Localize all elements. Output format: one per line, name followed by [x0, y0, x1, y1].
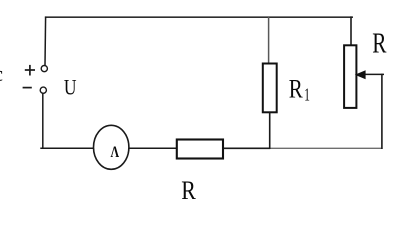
wire: left vertical from top bus to + terminal	[44, 17, 47, 66]
resistor R1 (middle vertical rectangle)	[263, 64, 277, 113]
label: plus sign of source	[25, 65, 35, 76]
wire: top horizontal bus	[45, 16, 353, 18]
svg-text:R: R	[372, 29, 386, 60]
wire: vertical drop from top bus to R1 (grey)	[268, 17, 270, 64]
wiper arrowhead pointing left into rheostat	[355, 70, 366, 79]
svg-text:1: 1	[304, 84, 310, 104]
svg-text:Λ: Λ	[111, 144, 120, 161]
wire: from R1 bottom to bottom bus	[269, 112, 271, 149]
svg-text:R: R	[181, 175, 196, 205]
wire: left vertical from - terminal down to bottom bus	[42, 93, 44, 149]
wire: bottom bus from R1 junction to right vertical (grey)	[270, 147, 383, 149]
wire: vertical drop from top bus to rheostat	[350, 16, 352, 45]
wire: bottom left horizontal into ammeter	[40, 147, 94, 149]
node: + terminal circle of source U	[41, 66, 47, 72]
resistor R (bottom rectangle)	[177, 140, 223, 159]
wire: resistor R to R1 junction	[224, 147, 270, 149]
wire: wiper horizontal lead	[364, 73, 384, 75]
wire: ammeter to resistor R	[129, 147, 177, 149]
svg-text:U: U	[64, 74, 77, 99]
ammeter A (ellipse)	[94, 125, 129, 169]
svg-text:c: c	[0, 61, 3, 86]
node: - terminal circle of source U	[40, 87, 46, 93]
svg-text:R: R	[289, 74, 303, 104]
wire: wiper vertical down to bottom bus	[381, 74, 383, 149]
rheostat R (right vertical rectangle)	[344, 45, 356, 108]
label: minus sign of source	[23, 87, 32, 89]
